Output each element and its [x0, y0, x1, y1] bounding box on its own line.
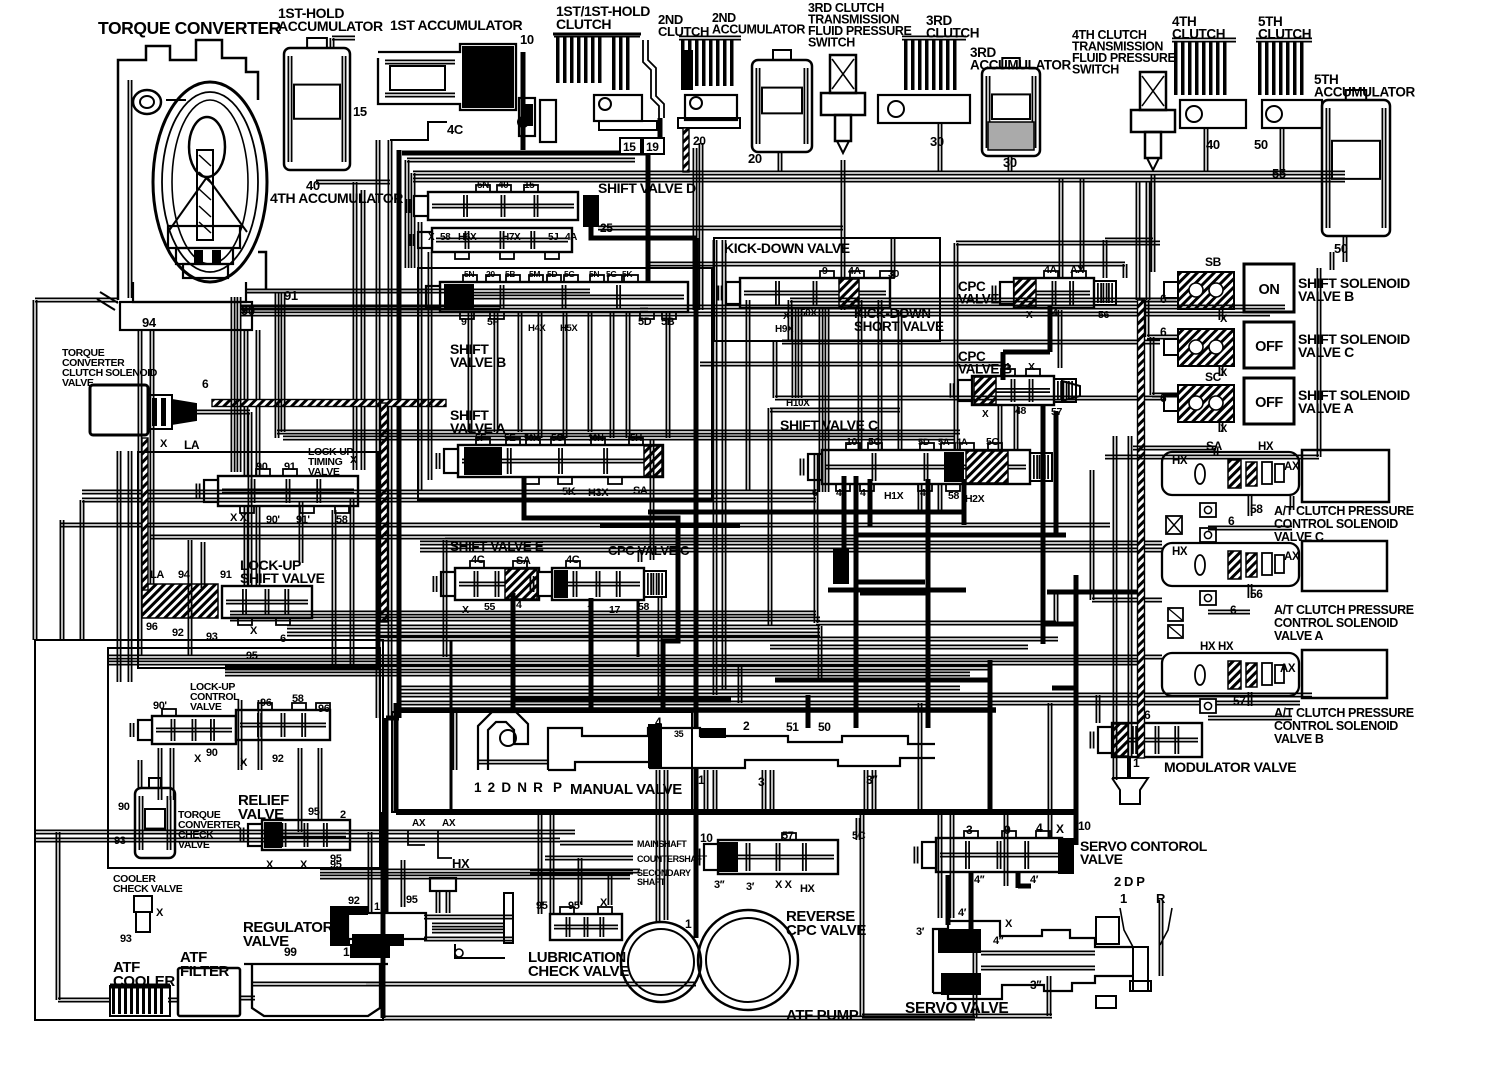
- svg-text:SWITCH: SWITCH: [808, 36, 855, 50]
- svg-text:X: X: [250, 625, 258, 637]
- svg-text:HX: HX: [800, 883, 816, 895]
- svg-text:5E: 5E: [504, 433, 516, 444]
- svg-text:5B: 5B: [505, 269, 515, 279]
- svg-text:A/T CLUTCH PRESSURE: A/T CLUTCH PRESSURE: [1274, 706, 1414, 720]
- svg-text:CLUTCH: CLUTCH: [1172, 27, 1225, 42]
- svg-text:X: X: [1005, 918, 1013, 930]
- svg-text:X: X: [266, 859, 274, 871]
- svg-text:58: 58: [948, 490, 959, 502]
- svg-text:ATF PUMP: ATF PUMP: [786, 1007, 859, 1024]
- svg-text:50X: 50X: [800, 308, 817, 319]
- svg-text:CONTROL SOLENOID: CONTROL SOLENOID: [1274, 719, 1398, 733]
- svg-text:TORQUE CONVERTER: TORQUE CONVERTER: [98, 18, 282, 38]
- svg-text:1 2 D N R: 1 2 D N R: [474, 780, 544, 795]
- svg-text:1: 1: [374, 901, 380, 913]
- svg-text:92: 92: [272, 753, 284, 765]
- svg-text:VALVE C: VALVE C: [1298, 344, 1354, 360]
- svg-text:AX: AX: [442, 818, 456, 829]
- svg-text:4: 4: [1036, 821, 1043, 835]
- svg-text:VALVE A: VALVE A: [1298, 400, 1354, 416]
- svg-text:4: 4: [516, 599, 522, 611]
- svg-text:LA: LA: [150, 569, 164, 581]
- svg-text:X: X: [600, 897, 608, 909]
- svg-text:3′: 3′: [746, 881, 755, 893]
- svg-text:6: 6: [1160, 325, 1167, 339]
- svg-text:15: 15: [524, 180, 535, 191]
- svg-text:4: 4: [836, 487, 842, 499]
- svg-text:5N: 5N: [589, 269, 599, 279]
- svg-text:91: 91: [284, 461, 296, 473]
- svg-text:HX: HX: [1258, 441, 1274, 453]
- svg-text:AX: AX: [1280, 663, 1296, 675]
- svg-text:6: 6: [202, 377, 209, 391]
- svg-text:KICK-DOWN VALVE: KICK-DOWN VALVE: [724, 240, 850, 256]
- svg-text:5C: 5C: [986, 436, 999, 448]
- svg-text:5D: 5D: [638, 316, 652, 328]
- svg-text:CLUTCH: CLUTCH: [926, 26, 979, 41]
- svg-text:50: 50: [1254, 137, 1268, 152]
- svg-text:5A: 5A: [938, 437, 950, 448]
- svg-text:1: 1: [685, 917, 692, 931]
- svg-text:HX: HX: [1172, 455, 1188, 467]
- svg-text:3′: 3′: [916, 926, 925, 938]
- svg-text:X: X: [1028, 361, 1035, 373]
- svg-text:X: X: [1220, 423, 1228, 435]
- svg-text:H2X: H2X: [965, 493, 985, 505]
- svg-text:H1X: H1X: [884, 490, 904, 502]
- svg-text:9: 9: [461, 316, 467, 328]
- svg-text:X: X: [300, 859, 308, 871]
- svg-text:H7X: H7X: [502, 232, 521, 243]
- svg-text:X: X: [156, 907, 164, 919]
- svg-text:X X: X X: [230, 512, 248, 524]
- svg-text:15: 15: [353, 104, 367, 119]
- svg-text:FILTER: FILTER: [180, 963, 230, 980]
- svg-text:48: 48: [1015, 405, 1026, 417]
- svg-text:ACCUMULATOR: ACCUMULATOR: [278, 18, 383, 34]
- svg-text:HX HX: HX HX: [1200, 641, 1234, 653]
- svg-text:5G: 5G: [551, 433, 564, 444]
- svg-text:CONTROL SOLENOID: CONTROL SOLENOID: [1274, 517, 1398, 531]
- svg-text:50X: 50X: [524, 433, 539, 443]
- svg-text:5N: 5N: [464, 269, 474, 279]
- svg-text:LA: LA: [184, 438, 200, 452]
- svg-text:35: 35: [674, 729, 684, 739]
- svg-text:1ST ACCUMULATOR: 1ST ACCUMULATOR: [390, 17, 522, 33]
- svg-text:4A: 4A: [565, 232, 577, 243]
- svg-text:SB: SB: [1205, 255, 1222, 269]
- svg-text:3: 3: [966, 823, 973, 837]
- svg-text:30N: 30N: [588, 433, 603, 443]
- svg-text:SHAFT: SHAFT: [637, 877, 666, 887]
- svg-text:9: 9: [822, 265, 828, 277]
- svg-text:5D: 5D: [547, 269, 557, 279]
- svg-text:ACCUMULATOR: ACCUMULATOR: [1314, 85, 1415, 100]
- svg-text:OFF: OFF: [1255, 339, 1283, 355]
- svg-text:4′′: 4′′: [993, 935, 1004, 947]
- svg-text:20: 20: [486, 269, 495, 279]
- svg-text:3′′: 3′′: [1030, 978, 1042, 992]
- svg-text:X: X: [160, 438, 168, 450]
- svg-text:25: 25: [600, 221, 613, 235]
- svg-text:96: 96: [318, 703, 330, 715]
- svg-text:5F: 5F: [475, 433, 486, 444]
- svg-text:2 D P: 2 D P: [1114, 874, 1145, 889]
- svg-text:92: 92: [348, 895, 360, 907]
- svg-text:5G: 5G: [606, 269, 617, 279]
- svg-text:X X: X X: [775, 879, 793, 891]
- svg-text:4C: 4C: [447, 122, 464, 137]
- svg-text:58: 58: [292, 693, 304, 705]
- svg-text:5B: 5B: [661, 316, 675, 328]
- svg-text:96: 96: [146, 621, 158, 633]
- svg-text:50: 50: [818, 720, 831, 734]
- svg-text:R: R: [1156, 891, 1166, 906]
- svg-text:90: 90: [206, 747, 218, 759]
- svg-text:ON: ON: [1259, 282, 1280, 298]
- svg-text:AX: AX: [412, 818, 426, 829]
- svg-text:CPC VALVE: CPC VALVE: [786, 922, 866, 939]
- svg-text:CHECK VALVE: CHECK VALVE: [113, 883, 183, 895]
- svg-text:3′′: 3′′: [714, 879, 725, 891]
- svg-text:X: X: [1220, 367, 1228, 379]
- svg-text:VALVE B: VALVE B: [1298, 288, 1354, 304]
- svg-text:VALVE: VALVE: [1080, 851, 1123, 867]
- svg-text:95': 95': [568, 900, 582, 912]
- svg-text:94: 94: [142, 315, 157, 330]
- svg-text:5K: 5K: [622, 269, 633, 279]
- svg-text:VALVE: VALVE: [190, 701, 222, 713]
- svg-text:SHIFT VALVE: SHIFT VALVE: [240, 570, 325, 586]
- svg-text:5N: 5N: [477, 180, 489, 191]
- svg-text:X: X: [982, 409, 989, 420]
- svg-text:92: 92: [172, 627, 184, 639]
- svg-text:ACCUMULATOR: ACCUMULATOR: [970, 58, 1071, 73]
- svg-text:93: 93: [206, 631, 218, 643]
- svg-text:4C: 4C: [566, 554, 580, 566]
- svg-text:SWITCH: SWITCH: [1072, 63, 1119, 77]
- svg-text:5J: 5J: [548, 232, 558, 243]
- svg-text:91: 91: [220, 569, 232, 581]
- svg-text:10: 10: [1078, 819, 1091, 833]
- svg-text:5M: 5M: [529, 269, 540, 279]
- svg-text:5G: 5G: [564, 269, 575, 279]
- svg-text:90: 90: [256, 461, 268, 473]
- svg-text:MANUAL VALVE: MANUAL VALVE: [570, 781, 682, 798]
- svg-text:5K: 5K: [562, 486, 576, 498]
- svg-text:99: 99: [284, 945, 297, 959]
- svg-text:90: 90: [118, 801, 130, 813]
- svg-text:2: 2: [743, 719, 750, 733]
- svg-text:CLUTCH: CLUTCH: [556, 16, 611, 32]
- svg-text:5C: 5C: [868, 436, 881, 448]
- svg-text:VALVE A: VALVE A: [1274, 629, 1323, 643]
- svg-text:P: P: [553, 780, 562, 795]
- svg-text:X: X: [350, 454, 357, 466]
- svg-text:4: 4: [860, 487, 866, 499]
- svg-text:A/T CLUTCH PRESSURE: A/T CLUTCH PRESSURE: [1274, 603, 1414, 617]
- svg-text:1: 1: [1120, 891, 1127, 906]
- svg-text:H4X: H4X: [528, 323, 546, 334]
- svg-text:VALVE: VALVE: [243, 933, 289, 950]
- svg-text:2: 2: [340, 809, 346, 821]
- svg-text:4′: 4′: [958, 907, 967, 919]
- svg-text:AX: AX: [1284, 461, 1300, 473]
- svg-text:58: 58: [440, 232, 451, 243]
- svg-text:MAINSHAFT: MAINSHAFT: [637, 839, 687, 849]
- svg-text:1: 1: [343, 945, 350, 959]
- svg-text:57: 57: [782, 830, 794, 842]
- svg-text:19: 19: [646, 140, 659, 154]
- svg-text:SA: SA: [516, 555, 531, 567]
- svg-text:CLUTCH: CLUTCH: [1258, 27, 1311, 42]
- svg-text:40: 40: [498, 180, 509, 191]
- svg-text:95: 95: [406, 894, 418, 906]
- svg-text:3: 3: [758, 775, 765, 789]
- svg-text:SHIFT VALVE D: SHIFT VALVE D: [598, 180, 696, 196]
- svg-text:4A: 4A: [848, 265, 861, 277]
- svg-text:OFF: OFF: [1255, 395, 1283, 411]
- svg-text:VALVE B: VALVE B: [1274, 732, 1324, 746]
- svg-text:MODULATOR VALVE: MODULATOR VALVE: [1164, 759, 1296, 775]
- svg-text:10: 10: [520, 32, 534, 47]
- svg-text:30: 30: [1003, 155, 1017, 170]
- svg-text:10: 10: [700, 831, 713, 845]
- svg-text:A/T CLUTCH PRESSURE: A/T CLUTCH PRESSURE: [1274, 504, 1414, 518]
- svg-text:X: X: [194, 753, 202, 765]
- svg-text:CONTROL SOLENOID: CONTROL SOLENOID: [1274, 616, 1398, 630]
- svg-text:5D: 5D: [918, 437, 930, 448]
- svg-text:HX: HX: [452, 856, 470, 871]
- svg-text:4: 4: [655, 715, 662, 729]
- svg-text:51: 51: [786, 720, 799, 734]
- svg-text:4TH ACCUMULATOR: 4TH ACCUMULATOR: [270, 190, 403, 206]
- svg-text:X: X: [1056, 822, 1064, 836]
- svg-text:X: X: [428, 232, 435, 243]
- svg-text:HX: HX: [1172, 546, 1188, 558]
- svg-text:5H: 5H: [630, 433, 642, 444]
- svg-text:CHECK VALVE: CHECK VALVE: [528, 963, 629, 980]
- svg-text:93: 93: [120, 933, 132, 945]
- svg-text:15: 15: [623, 140, 636, 154]
- svg-text:4′′: 4′′: [974, 874, 985, 886]
- svg-text:H6X: H6X: [458, 232, 477, 243]
- svg-text:90': 90': [153, 700, 167, 712]
- svg-text:10: 10: [846, 436, 857, 448]
- svg-text:AX: AX: [1284, 551, 1300, 563]
- svg-text:4′: 4′: [1030, 874, 1039, 886]
- svg-text:30: 30: [888, 268, 899, 280]
- svg-text:4C: 4C: [471, 554, 485, 566]
- svg-text:ACCUMULATOR: ACCUMULATOR: [712, 23, 805, 37]
